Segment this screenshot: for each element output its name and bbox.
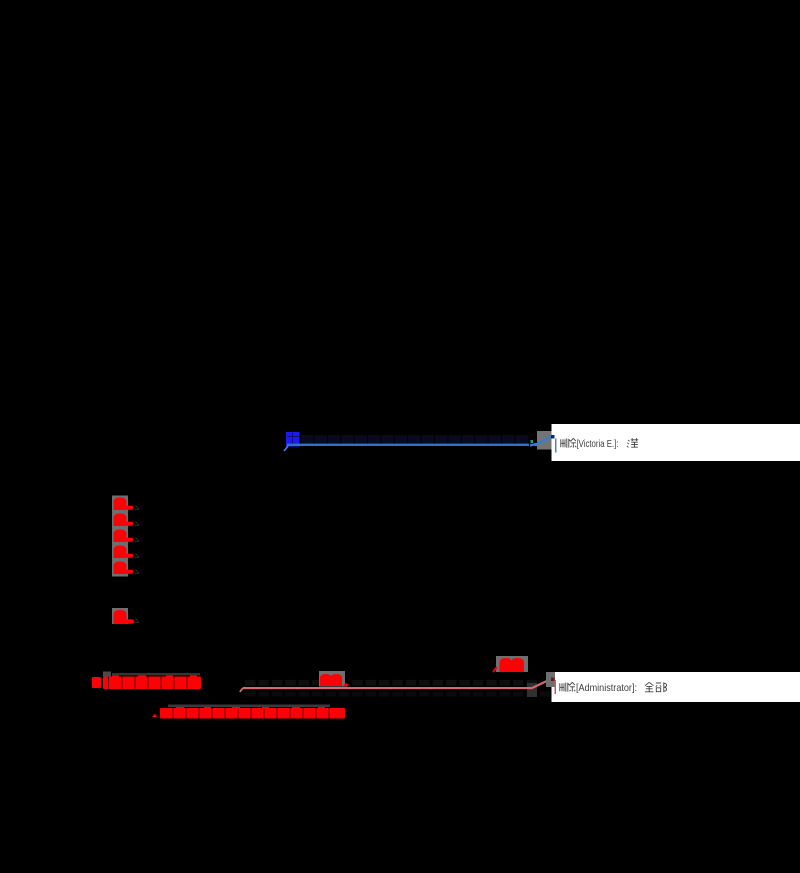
bright red bold deleted heading text — [92, 677, 201, 690]
blue strikethrough line — [287, 444, 529, 446]
balloon 1 text: 删除[Victoria E.]: 灌 — [561, 438, 577, 448]
glyph guan — [627, 438, 638, 447]
red deleted chars on grey shading (in struck line) — [319, 671, 349, 687]
ghost deleted text above strikethrough — [245, 680, 537, 686]
grey shading right end of struck row — [527, 683, 537, 697]
red list glyph 3 — [114, 530, 127, 543]
red connector line to balloon 2 — [531, 679, 551, 689]
navy anchor dot balloon 1 — [551, 435, 555, 439]
red list glyph 4 — [114, 546, 127, 559]
faint grey caps above heading — [103, 672, 111, 677]
faint grey caps above bottom row — [168, 705, 330, 708]
teal revision marks — [531, 440, 534, 443]
salmon strikethrough of deleted paragraph — [240, 688, 245, 693]
glyph quan — [645, 682, 653, 692]
blue connector line to balloon 1 — [530, 437, 551, 446]
red list glyph 1 — [114, 498, 127, 511]
blue change bar balloon 1 — [555, 439, 557, 453]
single red deleted glyph on grey shading — [112, 608, 139, 624]
red change bar balloon 2 — [555, 680, 557, 694]
red deleted chars on grey shading (upper line) — [493, 656, 528, 672]
glyph bu — [656, 682, 667, 692]
deleted blue character (Victoria) — [284, 432, 300, 451]
svg-text:[Administrator]:: [Administrator]: — [576, 682, 637, 694]
svg-text:[Victoria E.]:: [Victoria E.]: — [577, 438, 619, 450]
red deleted list items on grey field shading (5 rows) — [112, 496, 139, 577]
red list glyph 2 — [114, 514, 127, 527]
balloon 2 text: 删除[Administrator]: 全部 — [560, 682, 576, 692]
dark red anchor dot balloon 2 — [551, 678, 555, 682]
glyph chu — [568, 682, 576, 691]
glyph shan — [560, 683, 566, 692]
grey anchor block left of balloon 1 — [537, 431, 552, 450]
glyph chu — [569, 438, 577, 447]
comment balloon 1 (Victoria E.) — [552, 424, 800, 461]
bottom red bold deleted text row — [152, 708, 345, 719]
red list glyph 5 — [114, 562, 127, 575]
comment balloon 2 (Administrator) — [552, 672, 800, 702]
glyph shan — [561, 439, 567, 448]
dark navy deleted text run (barely visible) — [301, 435, 528, 446]
ghost text row below strikethrough — [245, 691, 550, 696]
grey anchor block balloon 2 — [546, 672, 555, 687]
